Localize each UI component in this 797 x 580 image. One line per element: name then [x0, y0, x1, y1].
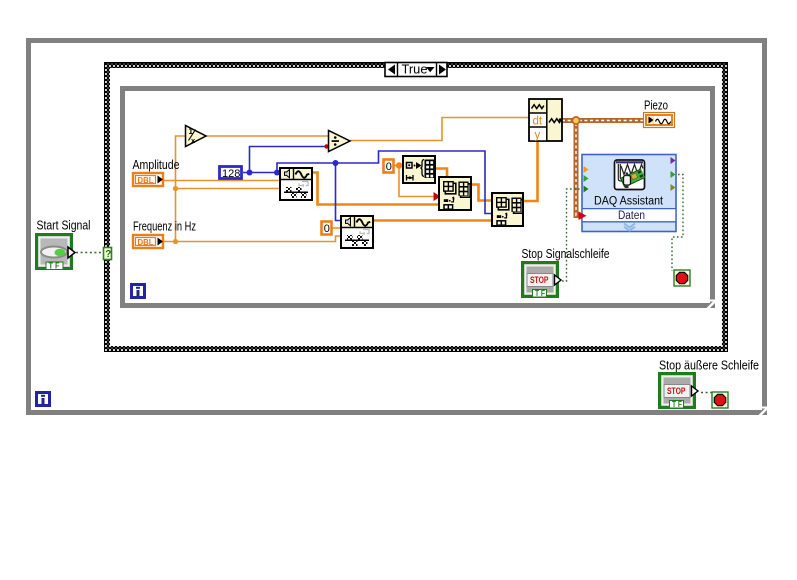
svg-text:Stop äußere Schleife: Stop äußere Schleife — [659, 358, 759, 373]
outer loop stop terminal — [712, 392, 728, 408]
svg-text:T F: T F — [535, 289, 545, 298]
svg-text:T F: T F — [49, 262, 60, 271]
wire frequency branch up to reciprocal — [176, 136, 186, 242]
boolean control Stop Signalschleife — [523, 263, 562, 299]
wire Simulate Signal 2 to Replace Array Subset 2 — [373, 219, 492, 222]
inner while loop border — [120, 86, 715, 308]
svg-text:dt: dt — [533, 116, 543, 128]
wire Initialize Array to Replace Array Subset 1 — [435, 169, 447, 178]
Simulate Signal express VI 2 — [341, 216, 373, 248]
wire 0 constant 2 to Simulate Signal 2 — [332, 227, 341, 229]
junction dot B — [173, 239, 178, 244]
case structure border — [104, 62, 728, 352]
coercion dot at divide — [324, 144, 328, 148]
wire Replace Array Subset 1 to 2 — [471, 185, 492, 201]
numeric control Frequenz — [133, 235, 163, 248]
svg-text:T F: T F — [672, 400, 682, 409]
divide function — [329, 131, 351, 152]
svg-text:DBL: DBL — [138, 175, 154, 185]
waveform indicator Piezo — [644, 113, 675, 128]
svg-text:Stop Signalschleife: Stop Signalschleife — [522, 246, 610, 261]
DAQ Assistant express VI — [582, 155, 676, 232]
svg-text:Amplitude: Amplitude — [133, 157, 180, 172]
wire 128 distribution run — [277, 151, 492, 214]
boolean wire Start Signal to tunnel — [76, 252, 103, 254]
junction dot E — [274, 170, 280, 176]
wire blue branch to Simulate Signal 2 — [336, 163, 342, 221]
outer loop iteration terminal — [37, 393, 50, 406]
numeric constant 0 for Simulate Signal 2 — [322, 222, 332, 235]
Replace Array Subset node 1 — [439, 177, 471, 210]
wire Simulate Signal 1 to Replace Array Subset 1 — [312, 173, 439, 205]
svg-text:DBL: DBL — [138, 237, 154, 247]
junction ring G — [572, 117, 579, 124]
wire frequency branch into Simulate Signal 1 — [176, 188, 281, 190]
boolean control Start Signal — [37, 235, 76, 271]
junction dot C — [396, 162, 402, 168]
svg-text:0: 0 — [324, 223, 330, 235]
Build Waveform node — [529, 99, 562, 142]
numeric constant 128 — [220, 167, 242, 181]
coercion arrow at Replace Array Subset 1 — [434, 192, 441, 201]
boolean wire DAQ stopped to loop terminal — [672, 175, 683, 272]
svg-text:y: y — [535, 130, 541, 142]
boolean wire outer stop button to terminal — [701, 392, 712, 394]
inner loop iteration terminal — [132, 285, 145, 298]
wire 128 to Simulate Signal 1 — [243, 172, 280, 174]
reciprocal function — [186, 126, 207, 147]
Simulate Signal express VI 1 — [280, 168, 312, 200]
wire 0 constant branch to Replace Array Subset 1 — [399, 166, 436, 197]
numeric control Amplitude — [133, 173, 163, 186]
junction dot A — [173, 186, 178, 191]
boolean control Stop aeussere Schleife — [660, 374, 699, 410]
svg-text:Frequenz in Hz: Frequenz in Hz — [133, 219, 196, 234]
svg-text:?: ? — [105, 249, 111, 260]
svg-text:DAQ Assistant: DAQ Assistant — [594, 196, 664, 208]
waveform wire branch to DAQ Assistant — [576, 123, 580, 216]
wire Amplitude to Simulate Signal 1 — [164, 180, 280, 182]
svg-text:Piezo: Piezo — [644, 98, 668, 113]
wire Replace Array Subset 2 to Build Waveform y — [523, 141, 538, 201]
wire divide to Build Waveform dt — [350, 118, 529, 141]
svg-text:0: 0 — [386, 161, 392, 173]
inner loop stop terminal — [674, 270, 690, 286]
svg-text:128: 128 — [222, 168, 240, 180]
red arrow into DAQ Daten input — [579, 212, 587, 221]
case selector True — [385, 63, 447, 77]
svg-text:Daten: Daten — [618, 210, 645, 222]
wire reciprocal to divide — [206, 135, 329, 137]
wire 128 branch to divide — [250, 147, 329, 173]
DAQ Assistant icon — [615, 160, 646, 190]
case tunnel — [104, 248, 112, 261]
svg-text:Start Signal: Start Signal — [37, 218, 91, 233]
svg-text:STOP: STOP — [667, 386, 686, 396]
numeric constant 0 for Initialize Array — [384, 160, 394, 173]
waveform wire Build Waveform to Piezo — [562, 118, 644, 123]
Initialize Array node — [403, 156, 435, 183]
outer while loop border — [26, 38, 767, 415]
wire Frequenz horizontal run — [164, 236, 341, 242]
svg-text:STOP: STOP — [530, 275, 549, 285]
junction dot F — [333, 160, 339, 166]
svg-text:True: True — [402, 63, 428, 77]
Replace Array Subset node 2 — [492, 193, 523, 226]
junction dot D — [247, 170, 253, 176]
wire 0 constant to Initialize Array — [394, 165, 403, 167]
boolean wire stop button to DAQ — [562, 189, 582, 281]
